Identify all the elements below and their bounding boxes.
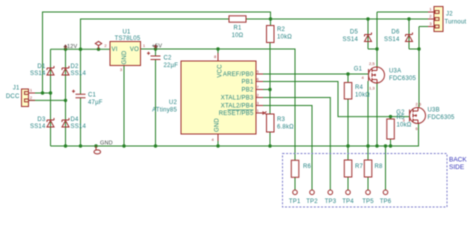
wire [123, 66, 125, 146]
test point TP3 [325, 190, 337, 205]
wire [217, 141, 219, 146]
svg-text:TP5: TP5 [362, 199, 374, 205]
svg-text:R6: R6 [303, 164, 312, 170]
resistor R6 [291, 160, 311, 177]
svg-text:SIDE: SIDE [449, 164, 465, 171]
svg-text:AREF/PB0: AREF/PB0 [223, 72, 254, 78]
diode D3 [30, 117, 54, 130]
svg-text:VI: VI [112, 47, 118, 53]
test point TP5 [362, 190, 374, 205]
svg-text:SS14: SS14 [30, 124, 46, 130]
ground symbol [94, 140, 113, 154]
power flag +5V [152, 44, 163, 50]
svg-text:ATtiny85: ATtiny85 [152, 108, 177, 114]
wire [65, 100, 67, 146]
wire [390, 117, 392, 119]
power flag +12V [64, 44, 78, 50]
svg-text:G2: G2 [396, 110, 405, 116]
svg-text:J1: J1 [13, 86, 20, 92]
diode D4 [62, 117, 86, 130]
wire [29, 99, 66, 101]
wire [347, 74, 349, 83]
wire [390, 139, 392, 146]
wire [217, 49, 219, 53]
svg-text:10kΩ: 10kΩ [355, 93, 370, 99]
wire [294, 177, 296, 190]
power flag PWR_FLAG [95, 41, 101, 49]
test point TP1 [289, 190, 301, 205]
svg-text:DCC: DCC [6, 94, 20, 100]
svg-text:FDC6305: FDC6305 [428, 115, 456, 121]
wire [269, 132, 271, 146]
node junction dots [41, 17, 421, 147]
wire [155, 60, 157, 147]
svg-text:TP6: TP6 [380, 199, 392, 205]
capacitor C2 [147, 52, 178, 69]
svg-text:2,5: 2,5 [369, 61, 375, 66]
capacitor C1 [72, 90, 103, 106]
svg-text:6.8kΩ: 6.8kΩ [277, 125, 294, 131]
wire [368, 48, 377, 50]
wire [263, 73, 369, 75]
svg-text:SS14: SS14 [343, 37, 359, 43]
svg-text:D3: D3 [37, 117, 46, 123]
diode D5 [343, 30, 372, 44]
svg-text:10kΩ: 10kΩ [277, 35, 292, 41]
wire [418, 27, 420, 108]
svg-text:PB1: PB1 [242, 80, 254, 86]
svg-text:TP2: TP2 [306, 199, 318, 205]
svg-text:FDC6305: FDC6305 [389, 76, 417, 82]
wire [376, 12, 378, 67]
svg-text:VO: VO [130, 47, 139, 53]
test point TP2 [306, 190, 318, 205]
transistor U3A [354, 61, 417, 91]
wire [263, 89, 270, 91]
svg-text:SS14: SS14 [30, 71, 46, 77]
svg-text:SS14: SS14 [384, 37, 400, 43]
svg-text:XTAL2/PB4: XTAL2/PB4 [221, 104, 254, 110]
svg-text:C1: C1 [88, 93, 97, 99]
svg-text:R2: R2 [277, 27, 286, 33]
svg-text:GND: GND [215, 118, 221, 132]
transistor U3B [396, 102, 455, 132]
wire [347, 146, 349, 160]
svg-text:10kΩ: 10kΩ [397, 123, 412, 129]
resistor R3 [267, 114, 295, 132]
wire [263, 106, 312, 191]
wire [51, 48, 111, 50]
resistor R2 [267, 26, 293, 43]
test point TP6 [380, 190, 392, 205]
wire [270, 19, 272, 26]
wire [51, 124, 419, 147]
resistor R1 [229, 16, 246, 39]
wire [263, 82, 410, 117]
svg-text:J2: J2 [446, 12, 453, 18]
svg-text:SS14: SS14 [71, 124, 87, 130]
test point TP4 [342, 190, 354, 205]
back side dashed box [283, 154, 448, 208]
wire [29, 92, 51, 94]
svg-text:2,5: 2,5 [416, 102, 422, 107]
wire [263, 98, 330, 191]
wire [385, 146, 387, 190]
svg-text:R8: R8 [375, 164, 384, 170]
resistor R8 [364, 160, 383, 177]
svg-text:D2: D2 [71, 64, 80, 70]
wire [367, 177, 369, 190]
svg-text:+12V: +12V [64, 44, 78, 50]
label back side [449, 157, 467, 172]
svg-text:U2: U2 [169, 100, 178, 106]
diode D2 [62, 64, 86, 77]
connector J1 [6, 86, 35, 107]
wire [377, 11, 428, 13]
svg-text:1,3: 1,3 [369, 86, 375, 91]
svg-text:SS14: SS14 [71, 71, 87, 77]
svg-text:TP1: TP1 [289, 199, 301, 205]
svg-text:R1: R1 [233, 26, 242, 32]
svg-text:U3B: U3B [428, 108, 440, 114]
wire [141, 49, 296, 160]
resistor R7 [344, 160, 363, 177]
svg-text:D4: D4 [71, 117, 80, 123]
wire [269, 90, 271, 115]
svg-text:R4: R4 [355, 85, 364, 91]
diode D1 [30, 64, 54, 77]
svg-text:BACK: BACK [449, 157, 467, 164]
wire [376, 83, 378, 146]
mcu U2 [152, 53, 266, 142]
wire [155, 49, 157, 56]
diode D6 [384, 30, 412, 44]
wire [419, 26, 428, 28]
wire [80, 98, 82, 146]
svg-text:C2: C2 [164, 56, 173, 62]
svg-text:GND: GND [100, 140, 113, 146]
wire [50, 93, 52, 146]
wire [408, 19, 410, 49]
svg-text:G1: G1 [354, 67, 363, 73]
svg-text:+5V: +5V [152, 44, 163, 50]
svg-text:U3A: U3A [389, 69, 401, 75]
wire [347, 177, 349, 190]
svg-text:U1: U1 [122, 30, 131, 36]
wire [50, 49, 52, 93]
wire [367, 146, 369, 160]
svg-text:GND: GND [122, 50, 128, 64]
svg-text:XTAL1/PB3: XTAL1/PB3 [221, 96, 254, 102]
wire [246, 18, 428, 20]
wire [347, 99, 349, 146]
svg-text:R7: R7 [355, 164, 364, 170]
regulator U1 [104, 30, 146, 73]
svg-text:TP3: TP3 [325, 199, 337, 205]
svg-text:D6: D6 [391, 30, 400, 36]
resistor R4 [344, 83, 370, 100]
wire [367, 81, 369, 146]
wire [81, 19, 230, 49]
resistor R5 [387, 115, 412, 139]
svg-text:TP4: TP4 [342, 199, 354, 205]
svg-text:47µF: 47µF [88, 100, 103, 106]
svg-text:PB2: PB2 [242, 88, 254, 94]
svg-text:10Ω: 10Ω [232, 33, 244, 39]
svg-text:D1: D1 [37, 64, 46, 70]
svg-text:Turnout: Turnout [445, 20, 467, 26]
svg-text:R3: R3 [277, 117, 286, 123]
svg-text:TS78L05: TS78L05 [115, 36, 141, 42]
wire [409, 48, 419, 50]
connector J2 [428, 7, 466, 32]
wire [65, 49, 67, 100]
svg-text:D5: D5 [350, 30, 359, 36]
wire [43, 12, 271, 93]
wire [80, 49, 82, 94]
svg-text:22µF: 22µF [164, 63, 179, 69]
wire [367, 19, 369, 49]
svg-text:RESET/PB5: RESET/PB5 [219, 111, 254, 117]
wire [269, 43, 271, 90]
